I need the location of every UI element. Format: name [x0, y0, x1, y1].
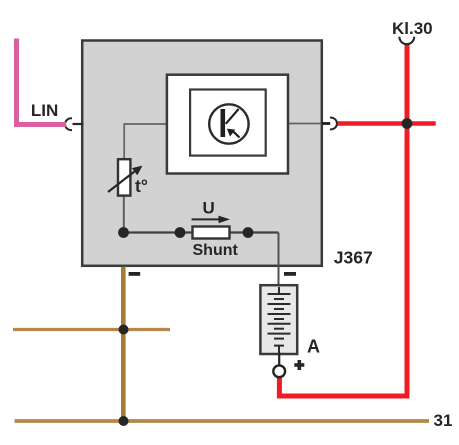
- plus sign: [294, 363, 304, 367]
- ground wire brown horizontal upper: [13, 328, 170, 331]
- wire: shunt to battery: [278, 233, 280, 289]
- svg-text:Kl.30: Kl.30: [392, 19, 433, 38]
- minus sign right: [284, 272, 296, 276]
- wire: white box to right edge connector: [287, 123, 322, 125]
- right connector stub: [322, 122, 331, 125]
- svg-text:Shunt: Shunt: [193, 242, 239, 259]
- junction node shunt a: [175, 227, 186, 238]
- junction node brown upper: [119, 325, 129, 335]
- LIN connector stub: [73, 123, 84, 125]
- red wire Kl.30 vertical and battery feed: [279, 45, 407, 396]
- right connector arc: [330, 118, 337, 130]
- shunt resistor body: [193, 227, 230, 239]
- battery terminal circle: [273, 365, 285, 377]
- K symbol upper arm: [226, 109, 239, 124]
- svg-text:LIN: LIN: [31, 101, 58, 120]
- Kl.30 terminal arc: [399, 37, 414, 44]
- thermistor body: [118, 159, 130, 195]
- junction node shunt b: [243, 227, 254, 238]
- battery plates: [268, 294, 291, 346]
- junction node red: [402, 118, 413, 129]
- control unit J367 box: [82, 41, 322, 266]
- electronics unit inner box: [190, 90, 266, 156]
- wire: thermistor to shunt row: [123, 195, 125, 233]
- K symbol arrow leg: [233, 132, 239, 138]
- junction node shunt left: [118, 227, 129, 238]
- ground wire brown vertical: [121, 267, 126, 421]
- red wire to Kl.30 rail: [338, 121, 436, 125]
- svg-text:t°: t°: [135, 176, 148, 196]
- svg-text:31: 31: [434, 411, 453, 430]
- battery bottom plate stub: [278, 346, 280, 353]
- electronics unit outer white box: [167, 75, 288, 174]
- electronics symbol circle: [209, 104, 248, 143]
- minus sign left: [129, 272, 141, 276]
- battery top plate stub: [278, 287, 280, 294]
- svg-text:J367: J367: [334, 248, 373, 268]
- wire: shunt row horizontal: [124, 231, 279, 233]
- LIN wire (pink): [17, 39, 67, 125]
- junction node rail: [119, 416, 129, 426]
- ground rail 31: [15, 419, 430, 423]
- battery body: [260, 285, 297, 354]
- battery lower lead: [278, 353, 280, 367]
- svg-text:U: U: [203, 199, 215, 218]
- U arrow: [192, 218, 221, 220]
- wire: internal L from white box to thermistor: [124, 124, 168, 160]
- LIN connector arc: [65, 118, 72, 130]
- K symbol bar: [221, 109, 226, 137]
- thermistor arrow: [108, 172, 135, 193]
- svg-text:A: A: [307, 337, 320, 357]
